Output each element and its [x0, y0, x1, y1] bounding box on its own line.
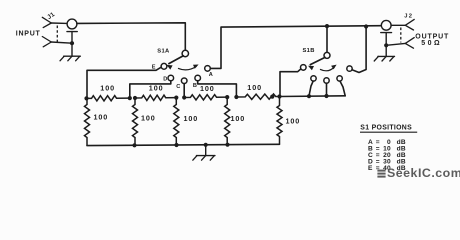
label contact E: [152, 64, 156, 70]
connector J2 body: [381, 20, 392, 45]
label 100 shunt 5: [286, 117, 301, 126]
switch S1B wiper arm: [308, 57, 325, 70]
node bottom shunt3: [174, 143, 178, 147]
node S1B pole tap: [325, 24, 329, 28]
svg-text:100: 100: [141, 114, 156, 123]
label contact C: [176, 84, 180, 90]
svg-text:50Ω: 50Ω: [421, 40, 442, 47]
svg-text:S1 POSITIONS: S1 POSITIONS: [360, 125, 412, 132]
svg-text:D: D: [163, 77, 167, 83]
node bottom ground: [204, 143, 208, 147]
connector J2 sleeve contact: [386, 38, 414, 49]
switch S1A contact C: [181, 78, 187, 84]
switch S1B contact D2: [311, 76, 316, 81]
svg-text:E: E: [152, 64, 156, 70]
connector J1 label: [46, 11, 56, 21]
connector J1 body: [67, 19, 77, 43]
node 5b (S1B wiper tap): [277, 94, 281, 98]
wire S1A contact A to J2 (0 dB path): [210, 26, 381, 69]
svg-text:100: 100: [231, 114, 246, 123]
switch S1A pole: [182, 50, 188, 56]
output impedance label: [421, 40, 442, 47]
legend row B = 10 dB: [368, 145, 406, 152]
svg-text:B: B: [193, 83, 197, 89]
resistor 100 series 3: [184, 95, 227, 100]
wire S1A contact D to node 2: [130, 81, 171, 98]
connector J2 tip contact: [391, 19, 414, 30]
label 100 shunt 2: [141, 114, 156, 123]
resistor 100 series 4: [236, 94, 279, 99]
switch S1B contact A2: [347, 66, 352, 71]
switch S1A label: [157, 49, 170, 55]
wire S1B contact B2 to rail: [340, 81, 345, 96]
wire S1B contact A2 to output line: [352, 27, 366, 73]
switch S1B contact E2: [301, 65, 307, 71]
wire S1A contact E to node 1: [87, 67, 161, 98]
switch S1B label: [303, 48, 315, 54]
svg-text:E: E: [368, 165, 373, 172]
svg-text:100: 100: [286, 117, 301, 126]
node at J1 sleeve: [70, 41, 74, 45]
svg-text:S1B: S1B: [303, 48, 315, 54]
resistor 100 shunt 4: [225, 97, 230, 145]
svg-text:100: 100: [184, 114, 199, 123]
wire S1B contact E2 to node 5: [280, 69, 301, 97]
resistor 100 series 1: [87, 96, 130, 101]
legend row D = 30 dB: [368, 158, 406, 165]
switch S1A wiper arm: [167, 56, 184, 70]
svg-text:100: 100: [100, 83, 115, 92]
label 100 series 1: [100, 83, 115, 92]
svg-text:S1A: S1A: [157, 49, 170, 55]
input label: [16, 31, 41, 38]
resistor 100 shunt 1: [85, 98, 90, 145]
node 3 (C tap): [182, 95, 186, 99]
connector J2 label: [404, 13, 413, 19]
node bottom shunt4: [225, 143, 229, 147]
node 4 (B tap): [234, 95, 238, 99]
node 1: [84, 96, 88, 100]
node at J2 sleeve: [384, 43, 388, 47]
node S1B contact A2 tap: [364, 24, 368, 28]
output label: [415, 33, 449, 40]
switch S1A rotation arrow: [178, 65, 199, 70]
switch S1A contact B: [195, 75, 201, 81]
resistor 100 shunt 2: [133, 98, 138, 145]
svg-text:100: 100: [94, 113, 109, 122]
switch S1A contact E: [161, 63, 167, 69]
switch S1B contact B2: [337, 76, 342, 81]
svg-text:J2: J2: [404, 13, 413, 19]
svg-text:INPUT: INPUT: [16, 31, 41, 38]
switch S1A contact A: [205, 66, 211, 72]
resistor 100 shunt 5: [277, 97, 282, 145]
label contact B: [193, 83, 197, 89]
switch S1B rotation arrow: [320, 65, 337, 71]
label contact A: [209, 72, 213, 78]
watermark SeekIC.com: [377, 166, 460, 180]
svg-text:SeekIC.com: SeekIC.com: [387, 166, 460, 180]
svg-text:C: C: [176, 84, 180, 90]
svg-text:100: 100: [200, 84, 215, 93]
switch S1B pole: [324, 52, 330, 58]
legend row A = 0 dB: [368, 139, 406, 146]
ground at J2: [374, 45, 394, 61]
label 100 shunt 4: [231, 114, 246, 123]
svg-text:100: 100: [149, 83, 164, 92]
node S1B contact D2 tap: [307, 94, 311, 98]
connector J1 insulator dashed line: [56, 26, 58, 44]
resistor 100 shunt 3: [174, 98, 179, 145]
node 2 (D tap): [128, 96, 132, 100]
label 100 series 4: [247, 83, 262, 92]
wire bottom rail: [87, 144, 280, 145]
node 4 shunt: [225, 95, 229, 99]
legend title S1 POSITIONS: [360, 125, 417, 133]
ground at ladder: [193, 145, 215, 160]
node 2 shunt: [133, 96, 137, 100]
connector J2 insulator dashed line: [400, 28, 402, 43]
ground at J1: [60, 43, 80, 61]
label 100 shunt 1: [94, 113, 109, 122]
wire S1A contact B to node 4: [198, 81, 237, 97]
legend row E = 40 dB: [368, 165, 406, 172]
wire top rail node5 to S1B contacts: [280, 95, 346, 98]
wire J1 to S1A pole: [77, 23, 185, 51]
connector J1 sleeve contact: [42, 37, 72, 47]
node 5: [270, 95, 274, 99]
label 100 series 3: [200, 84, 215, 93]
label 100 shunt 3: [184, 114, 199, 123]
switch S1A contact D: [168, 75, 174, 81]
wire S1B contact C2 to rail: [326, 83, 328, 96]
wire S1B contact D2 to rail: [309, 81, 313, 96]
node S1B contact C2 tap: [324, 94, 328, 98]
node bottom shunt2: [132, 143, 136, 147]
switch S1B contact C2: [324, 78, 329, 83]
node 3 shunt: [174, 96, 178, 100]
svg-text:A: A: [209, 72, 213, 78]
wire S1A contact C to node 3: [183, 84, 185, 98]
wire J2 line to S1B pole: [326, 26, 328, 52]
legend row C = 20 dB: [368, 152, 406, 159]
connector J1 tip contact: [42, 17, 67, 27]
label contact D: [163, 77, 167, 83]
label 100 series 2: [149, 83, 164, 92]
resistor 100 series 2: [135, 95, 176, 100]
svg-text:100: 100: [247, 83, 262, 92]
